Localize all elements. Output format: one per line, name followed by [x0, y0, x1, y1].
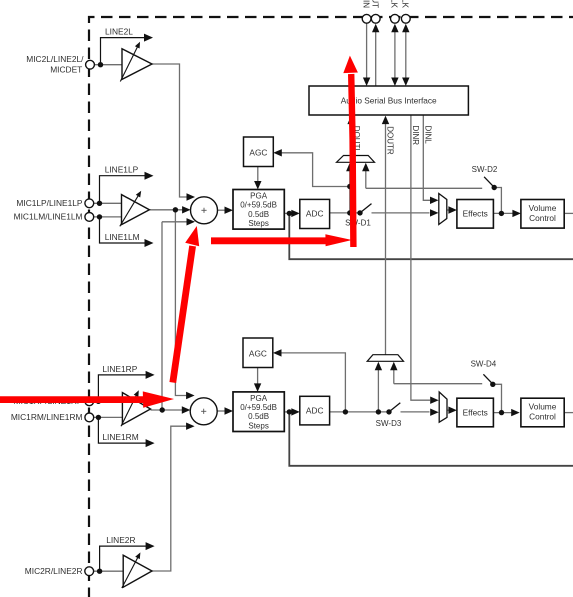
svg-text:MIC1RM/LINE1RM: MIC1RM/LINE1RM: [11, 412, 83, 422]
svg-text:LINE1RM: LINE1RM: [102, 432, 138, 442]
svg-text:DOUT: DOUT: [371, 0, 380, 8]
svg-text:LINE1RP: LINE1RP: [102, 364, 137, 374]
svg-text:AGC: AGC: [249, 348, 267, 358]
svg-text:SW-D4: SW-D4: [471, 359, 497, 368]
svg-text:SW-D1: SW-D1: [345, 219, 371, 228]
svg-text:MIC1LM/LINE1LM: MIC1LM/LINE1LM: [14, 212, 83, 222]
svg-text:SW-D2: SW-D2: [472, 165, 498, 174]
svg-text:0/+59.5dB: 0/+59.5dB: [240, 403, 277, 412]
svg-text:AGC: AGC: [249, 147, 267, 157]
svg-text:MIC2L/LINE2L/: MIC2L/LINE2L/: [26, 54, 84, 64]
svg-text:LINE1LP: LINE1LP: [105, 165, 139, 175]
svg-text:WCLK: WCLK: [401, 0, 410, 9]
svg-text:LINE1LM: LINE1LM: [105, 232, 140, 242]
svg-text:Audio Serial Bus Interface: Audio Serial Bus Interface: [341, 96, 437, 106]
svg-text:Effects: Effects: [463, 407, 488, 417]
svg-text:ADC: ADC: [306, 406, 324, 416]
svg-text:SW-D3: SW-D3: [376, 419, 402, 428]
svg-text:PGA: PGA: [250, 192, 268, 201]
svg-text:Volume: Volume: [529, 402, 557, 412]
svg-text:MIC2R/LINE2R: MIC2R/LINE2R: [25, 566, 83, 576]
svg-text:DINL: DINL: [423, 126, 432, 145]
svg-text:0/+59.5dB: 0/+59.5dB: [240, 201, 277, 210]
svg-text:0.5dB: 0.5dB: [248, 210, 269, 219]
svg-text:Volume: Volume: [529, 203, 557, 213]
svg-text:LINE2L: LINE2L: [105, 26, 133, 36]
svg-text:MICDET: MICDET: [50, 64, 82, 74]
svg-text:PGA: PGA: [250, 394, 268, 403]
svg-text:Control: Control: [529, 213, 556, 223]
svg-text:DINR: DINR: [411, 126, 420, 146]
svg-text:DIN: DIN: [361, 0, 370, 8]
svg-text:LINE2R: LINE2R: [106, 535, 135, 545]
svg-text:Effects: Effects: [463, 209, 488, 219]
svg-text:DOUTR: DOUTR: [386, 126, 395, 155]
svg-text:Steps: Steps: [248, 421, 268, 430]
svg-text:BCLK: BCLK: [390, 0, 399, 9]
svg-text:ADC: ADC: [306, 209, 324, 219]
svg-text:MIC1LP/LINE1LP: MIC1LP/LINE1LP: [16, 198, 83, 208]
svg-text:Control: Control: [529, 412, 556, 422]
svg-text:Steps: Steps: [248, 219, 268, 228]
svg-text:0.5dB: 0.5dB: [248, 412, 269, 421]
